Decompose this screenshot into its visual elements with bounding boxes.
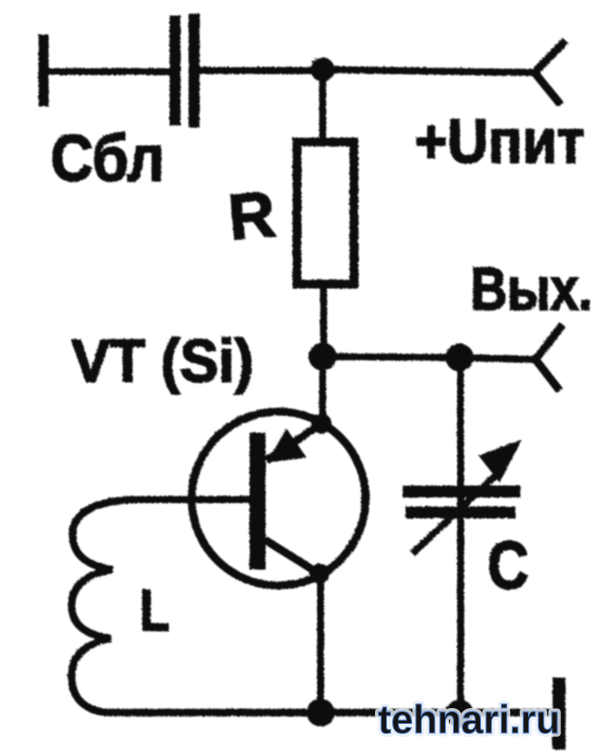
variable capacitor C bottom plate: [405, 506, 515, 518]
svg-text:tehnari.ru: tehnari.ru: [378, 698, 560, 742]
capacitor Сбл left plate: [169, 15, 180, 125]
Вых terminal chevron: [535, 324, 562, 390]
ground terminal bar (bottom right): [552, 677, 565, 749]
transistor emitter arrowhead: [266, 428, 306, 462]
transistor base bar: [249, 432, 265, 569]
node: emitter-rail junction dot: [306, 698, 334, 726]
wire output node down to variable capacitor: [457, 362, 464, 712]
resistor R body: [297, 142, 354, 284]
variable capacitor arrow shaft: [412, 470, 500, 553]
variable capacitor arrowhead: [478, 439, 521, 482]
wire top node down to resistor: [319, 69, 326, 140]
node: mid junction dot (collector node): [308, 342, 336, 370]
node: capacitor-rail junction dot: [445, 699, 473, 727]
watermark tehnari.ru: [378, 698, 560, 742]
node: top junction dot: [310, 57, 334, 81]
wire mid node down to transistor: [319, 362, 326, 424]
wire input to Cbl: [45, 68, 170, 75]
svg-text:C: C: [487, 527, 528, 603]
bottom rail wire: [104, 708, 554, 716]
transistor VT circle: [191, 411, 365, 585]
transistor emitter lead (upper): [266, 423, 321, 460]
wire collector down to bottom rail: [317, 573, 324, 712]
svg-text:R: R: [225, 177, 277, 253]
node blob at collector/circle: [309, 563, 329, 583]
+Uпит terminal chevron: [534, 40, 565, 104]
inductor L loops: [71, 499, 138, 712]
svg-text:Сбл: Сбл: [50, 120, 164, 194]
node: output junction dot: [445, 343, 473, 371]
input terminal bar (left): [38, 34, 48, 106]
base wire to inductor: [138, 496, 253, 503]
wire Cbl to top node: [198, 67, 322, 74]
svg-text:VT (Si): VT (Si): [71, 327, 253, 394]
wire output node to Вых terminal: [459, 357, 535, 359]
variable capacitor C top plate: [402, 485, 520, 497]
capacitor Сбл right plate: [188, 13, 199, 127]
svg-text:L: L: [139, 578, 169, 643]
wire mid node to output node: [322, 356, 459, 357]
wire resistor to mid node: [320, 287, 327, 356]
wire top node to +U terminal: [322, 69, 534, 72]
svg-text:Вых.: Вых.: [470, 255, 592, 322]
node blob at emitter/wire: [311, 413, 331, 433]
transistor collector lead (lower): [264, 539, 320, 574]
svg-text:+Uпит: +Uпит: [414, 107, 584, 176]
